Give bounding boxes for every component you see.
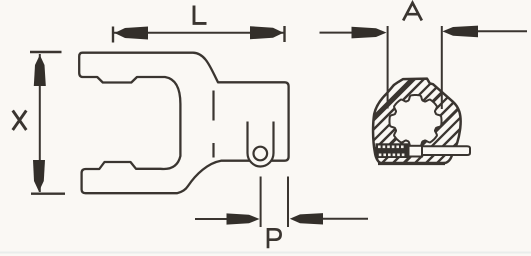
pin boss U-slot (248, 122, 274, 167)
L right arrowhead (250, 26, 284, 39)
label P (268, 229, 281, 248)
X top tick (30, 51, 62, 53)
pin hole circle (253, 147, 267, 161)
X top arrowhead (34, 55, 46, 86)
A right extension line (441, 26, 443, 109)
P right extension line (287, 177, 289, 228)
spring block (376, 143, 409, 158)
L left arrowhead (115, 27, 149, 40)
P left extension line (260, 177, 262, 228)
L right tick (283, 26, 285, 42)
splined bore (390, 95, 442, 147)
X bottom arrowhead (33, 160, 45, 192)
A left arrowhead (352, 27, 387, 39)
hub step line lower (212, 143, 214, 158)
X dimension line (39, 54, 41, 192)
hub step line upper (212, 91, 214, 121)
pin bar (422, 146, 470, 155)
P right arrow tail (323, 218, 368, 220)
A right arrow tail (478, 30, 527, 32)
spring coil dots (378, 146, 404, 157)
L left tick (112, 27, 114, 43)
A left extension line (387, 26, 389, 109)
P left arrowhead (227, 213, 260, 224)
X bottom tick (31, 192, 65, 194)
A right arrowhead (442, 26, 478, 38)
pin head square (409, 146, 423, 157)
hub outer contour (dome with ears hump) (373, 79, 461, 164)
label X (13, 111, 27, 131)
yoke outline (79, 53, 288, 194)
P left arrow tail (195, 218, 228, 220)
hub bottom edge (thick) (378, 162, 445, 165)
hatching (section lines) (298, 60, 531, 170)
P right arrowhead (290, 213, 323, 224)
faint scan streak at bottom (0, 252, 531, 254)
L dimension line (113, 32, 284, 34)
label L (194, 6, 207, 24)
label A (403, 3, 422, 21)
A left arrow tail (320, 32, 354, 34)
